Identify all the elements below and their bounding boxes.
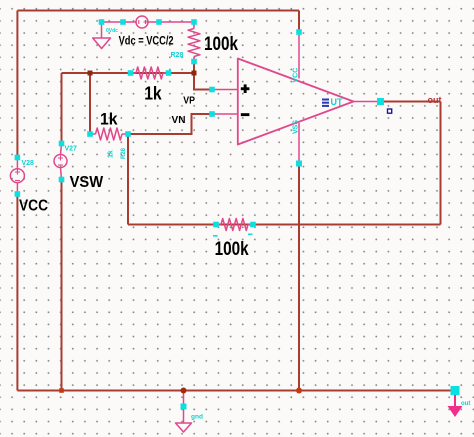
svg-text:R28: R28 <box>171 52 184 59</box>
svg-text:Vdc = VCC/2: Vdc = VCC/2 <box>119 36 174 48</box>
svg-text:1k: 1k <box>108 150 115 158</box>
svg-text:VSW: VSW <box>70 174 104 191</box>
svg-text:VCC: VCC <box>293 68 300 83</box>
svg-text:V28: V28 <box>22 160 35 167</box>
svg-text:out: out <box>428 95 442 105</box>
svg-text:VN: VN <box>172 114 186 126</box>
svg-text:1k: 1k <box>144 84 162 104</box>
svg-text:out: out <box>461 401 470 407</box>
svg-text:R28: R28 <box>121 147 127 159</box>
svg-text:0Vdc: 0Vdc <box>106 28 118 34</box>
svg-text:100k: 100k <box>215 238 249 260</box>
svg-text:UT: UT <box>331 97 343 107</box>
svg-text:VP: VP <box>183 95 195 107</box>
svg-text:V27: V27 <box>65 146 78 153</box>
svg-text:1k: 1k <box>100 109 118 128</box>
svg-text:VCC: VCC <box>19 197 48 214</box>
svg-text:gnd: gnd <box>191 414 203 421</box>
svg-text:100k: 100k <box>204 33 238 55</box>
svg-text:VSS: VSS <box>293 120 300 134</box>
